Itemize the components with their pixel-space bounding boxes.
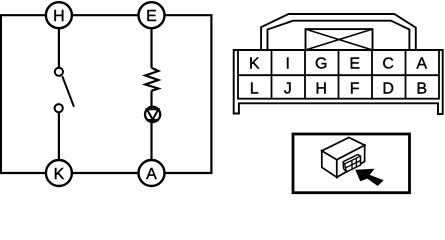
wire switch branch lower — [58, 108, 60, 173]
wire lamp branch upper — [150, 15, 152, 68]
connector J1 keyway crossed box — [306, 29, 373, 50]
wire circuit loop rectangle — [1, 15, 212, 173]
svg-text:A: A — [146, 166, 157, 183]
svg-text:L: L — [250, 80, 259, 97]
wire lamp branch lower — [150, 91, 152, 173]
diode D1 (circled diode) — [145, 107, 160, 122]
svg-text:I: I — [285, 56, 289, 73]
svg-text:J: J — [284, 80, 292, 97]
switch SW1 contact top — [55, 68, 63, 76]
svg-text:B: B — [416, 80, 427, 97]
connector J1 body outer boundary — [234, 50, 443, 114]
svg-text:A: A — [416, 56, 427, 73]
callout box — [293, 134, 410, 193]
relay module icon top face — [322, 138, 365, 160]
connector J1 pin grid — [238, 50, 439, 99]
connector J1 housing inner profile — [268, 21, 410, 50]
svg-text:H: H — [53, 8, 65, 25]
relay module icon left face — [322, 151, 337, 178]
svg-text:F: F — [350, 80, 360, 97]
svg-text:G: G — [315, 56, 327, 73]
connector J1 housing outer profile — [261, 14, 416, 50]
svg-text:K: K — [249, 56, 260, 73]
resistor — [145, 68, 158, 91]
switch SW1 contact bottom — [55, 104, 63, 112]
terminal E — [139, 2, 165, 28]
wire switch branch upper — [58, 15, 60, 71]
svg-text:C: C — [382, 56, 394, 73]
svg-text:D: D — [382, 80, 394, 97]
svg-text:E: E — [349, 56, 360, 73]
svg-text:E: E — [146, 8, 157, 25]
terminal H — [46, 2, 72, 28]
arrow pointer — [355, 169, 383, 186]
terminal K — [46, 160, 72, 186]
terminal A — [139, 160, 165, 186]
switch SW1 blade — [62, 76, 74, 107]
relay module icon right face — [337, 145, 365, 177]
svg-text:K: K — [54, 166, 65, 183]
svg-text:H: H — [315, 80, 327, 97]
socket connector on module — [343, 155, 360, 172]
